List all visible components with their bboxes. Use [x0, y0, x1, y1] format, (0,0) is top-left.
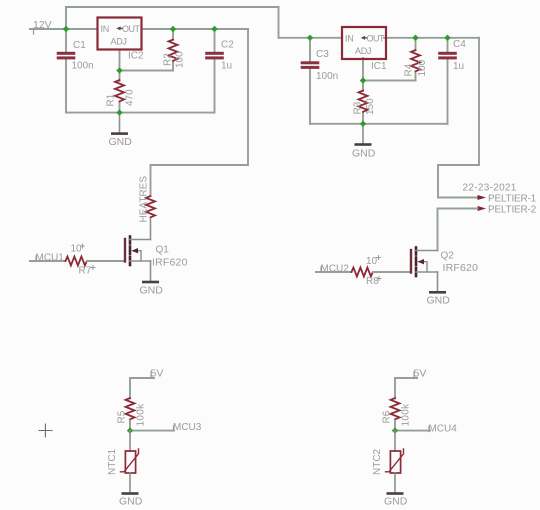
resistor R6: [391, 398, 400, 419]
junction ADJ node: [116, 67, 122, 73]
wire top bus down to right rail: [278, 7, 280, 38]
frame cross: [39, 424, 52, 437]
wire R4 bottom stub: [415, 73, 417, 81]
ground right regulator: [355, 143, 372, 146]
wire C2 bottom stub: [214, 58, 216, 113]
svg-text:HEATRES: HEATRES: [139, 176, 150, 223]
svg-text:1u: 1u: [221, 61, 232, 72]
junction C3 top: [307, 35, 313, 41]
capacitor C2: [205, 52, 224, 60]
svg-text:100k: 100k: [401, 403, 412, 427]
ground Q2: [429, 291, 446, 294]
svg-text:NTC1: NTC1: [107, 448, 118, 475]
ground NTC1: [122, 492, 139, 495]
capacitor C1: [57, 52, 76, 60]
node MCU2 label tick: [320, 267, 322, 272]
svg-text:GND: GND: [427, 295, 451, 307]
wire top bus up: [65, 7, 67, 29]
wire ADJ to R2 bottom: [120, 70, 174, 72]
wire junction to NTC1: [129, 431, 131, 451]
wire GND drop left regulator: [119, 113, 121, 133]
wire R2 bottom stub: [172, 62, 174, 71]
junction C4 top: [444, 35, 450, 41]
capacitor C3: [301, 61, 320, 69]
svg-text:MCU1: MCU1: [36, 253, 65, 264]
wire C1 bottom stub: [65, 58, 67, 113]
svg-text:GND: GND: [384, 496, 408, 508]
wire C3 top stub: [309, 38, 311, 62]
resistor R5: [126, 398, 135, 419]
gate bar: [410, 250, 412, 273]
junction R2 top: [170, 26, 176, 32]
resistor R3: [359, 91, 368, 112]
svg-text:12V: 12V: [33, 19, 52, 31]
svg-text:IRF620: IRF620: [443, 262, 479, 274]
svg-text:Q1: Q1: [156, 245, 170, 256]
wire 5V down to R5: [129, 378, 131, 399]
junction bottom rail: [116, 109, 122, 115]
wire heatres top lead: [150, 165, 152, 196]
svg-text:GND: GND: [119, 496, 143, 508]
wire R1 bottom stub: [119, 103, 121, 113]
svg-text:150: 150: [365, 98, 376, 115]
wire R3 top stub: [362, 81, 364, 92]
IC regulator U-box IC2: [98, 18, 142, 50]
resistor HEATRES: [146, 196, 155, 217]
wire 12V rail: [30, 28, 98, 30]
svg-text:100k: 100k: [136, 403, 147, 427]
resistor R2: [169, 40, 178, 61]
wire heatres bottom to drain: [150, 219, 152, 240]
wire to peltier-2 arrow: [438, 208, 478, 210]
wire Q2 source down: [437, 272, 439, 292]
wire MCU4: [395, 430, 430, 432]
bulk arrow: [419, 262, 427, 272]
wire top bus horizontal: [66, 6, 279, 8]
svg-text:5V: 5V: [151, 368, 164, 380]
bulk arrow: [133, 251, 141, 261]
wire OUT rail right circuit: [384, 37, 479, 39]
junction R6/NTC2: [392, 427, 398, 433]
wire C2 top stub: [214, 29, 216, 52]
thermistor NTC1: [121, 449, 139, 473]
wire C1 top stub: [65, 29, 67, 52]
wire 5V down to R6: [394, 378, 396, 399]
source lead: [416, 271, 438, 273]
wire R3 bottom stub: [362, 113, 364, 124]
source lead: [130, 260, 151, 262]
wire ADJ pin down right: [362, 58, 364, 81]
svg-text:10: 10: [366, 256, 378, 267]
wire NTC2 to gnd: [394, 473, 396, 493]
wire MCU2 to R8: [316, 271, 352, 273]
wire horizontal to heatres: [151, 164, 249, 166]
svg-text:Q2: Q2: [441, 251, 455, 262]
svg-text:PELTIER-2: PELTIER-2: [488, 205, 537, 216]
svg-text:R7: R7: [79, 266, 92, 277]
wire R5 bottom to junction: [129, 421, 131, 431]
node 5V right tick: [413, 372, 415, 378]
svg-text:100: 100: [175, 51, 186, 68]
svg-text:IRF620: IRF620: [152, 257, 188, 269]
IC regulator U-box IC1: [342, 27, 386, 59]
svg-text:IC2: IC2: [128, 51, 144, 62]
gate bar: [124, 239, 126, 262]
svg-text:NTC2: NTC2: [372, 448, 383, 475]
wire corner down right: [478, 38, 480, 165]
channel dashes: [129, 237, 132, 244]
wire junction to NTC2: [394, 431, 396, 451]
svg-text:100n: 100n: [72, 61, 94, 72]
svg-text:R6: R6: [382, 410, 393, 423]
node MCU1 label tick: [35, 256, 37, 261]
wire C4 bottom stub: [447, 58, 449, 124]
wire left to peltier column: [438, 164, 479, 166]
channel dashes: [415, 248, 418, 255]
drain lead: [130, 239, 151, 241]
svg-text:100n: 100n: [316, 71, 338, 82]
junction ADJ node right: [360, 77, 366, 83]
wire R2 top stub: [172, 29, 174, 40]
wire ADJ pin down: [119, 50, 121, 71]
transistor Q1: [125, 237, 151, 266]
wire R1 top stub: [119, 71, 121, 82]
svg-text:PELTIER-1: PELTIER-1: [488, 194, 537, 205]
svg-text:C4: C4: [453, 39, 466, 50]
svg-text:MCU4: MCU4: [429, 424, 458, 435]
wire R4 top stub: [415, 38, 417, 51]
wire GND drop right regulator: [362, 124, 364, 144]
transistor Q2: [411, 248, 438, 277]
wire bottom rail left circuit: [66, 112, 215, 114]
wire peltier-2 down to Q2 drain: [437, 209, 439, 251]
svg-text:R2: R2: [163, 53, 174, 66]
svg-text:R5: R5: [117, 410, 128, 423]
svg-text:MCU3: MCU3: [173, 422, 202, 433]
svg-text:R1: R1: [106, 93, 117, 106]
node 5V left tick: [150, 372, 152, 378]
junction bottom rail right: [360, 121, 366, 127]
svg-text:C3: C3: [316, 49, 329, 60]
svg-text:1u: 1u: [453, 61, 464, 72]
ground left regulator: [111, 132, 128, 135]
svg-text:MCU2: MCU2: [321, 264, 350, 275]
wire C4 top stub: [447, 38, 449, 52]
wire R7 to gate: [87, 260, 125, 262]
ground NTC2: [387, 492, 404, 495]
svg-text:22-23-2021: 22-23-2021: [463, 183, 517, 194]
svg-text:R3: R3: [353, 101, 364, 114]
wire Q1 source down: [150, 261, 152, 281]
node MCU4 tick: [428, 427, 430, 432]
junction R4 top: [412, 35, 418, 41]
wire MCU1 to R7: [30, 260, 66, 262]
thermistor NTC2: [386, 449, 404, 473]
wire 5V right horizontal: [395, 377, 417, 379]
wire OUT rail left circuit: [142, 28, 249, 30]
node 12V label tick: [33, 29, 35, 34]
wire 5V left horizontal: [130, 377, 154, 379]
svg-text:R4: R4: [404, 63, 415, 76]
svg-text:GND: GND: [352, 148, 376, 160]
wire to peltier-1 arrow: [438, 197, 478, 199]
wire MCU3: [130, 430, 174, 432]
svg-text:IC1: IC1: [371, 61, 387, 72]
svg-text:ADJ: ADJ: [355, 46, 371, 56]
wire down to peltier-1: [437, 165, 439, 198]
svg-text:C1: C1: [73, 40, 86, 51]
capacitor C4: [438, 52, 457, 60]
svg-text:ADJ: ADJ: [111, 37, 127, 47]
connector PELTIER-2 arrow: [478, 206, 487, 211]
svg-text:10: 10: [71, 244, 83, 255]
wire right rail into IC1: [279, 37, 343, 39]
svg-text:100: 100: [417, 59, 428, 76]
junction R5/NTC1: [127, 427, 133, 433]
svg-text:GND: GND: [109, 136, 133, 148]
svg-text:470: 470: [125, 89, 136, 106]
svg-text:GND: GND: [140, 285, 164, 297]
wire bottom rail right circuit: [310, 123, 448, 125]
svg-text:IN: IN: [345, 34, 353, 44]
svg-text:C2: C2: [221, 40, 234, 51]
resistor R8: [352, 268, 373, 277]
wire ADJ to R4 bottom: [363, 80, 416, 82]
wire corner down to heatres level: [247, 29, 249, 165]
svg-text:5V: 5V: [414, 368, 427, 380]
wire C3 bottom stub: [309, 68, 311, 124]
connector PELTIER-1 arrow: [478, 195, 487, 200]
junction 12V/C1: [63, 26, 69, 32]
wire R8 to gate: [373, 271, 411, 273]
node MCU3 tick: [173, 426, 175, 431]
resistor R4: [411, 50, 420, 71]
junction C2 top: [211, 26, 217, 32]
resistor R1: [115, 80, 124, 101]
svg-text:OUT: OUT: [367, 34, 386, 44]
svg-text:IN: IN: [101, 24, 109, 34]
ground Q1: [142, 281, 159, 284]
resistor R7: [66, 257, 87, 266]
drain lead: [416, 250, 438, 252]
svg-text:OUT: OUT: [122, 24, 141, 34]
svg-text:R8: R8: [366, 276, 379, 287]
wire R6 bottom to junction: [394, 421, 396, 431]
wire NTC1 to gnd: [129, 473, 131, 493]
